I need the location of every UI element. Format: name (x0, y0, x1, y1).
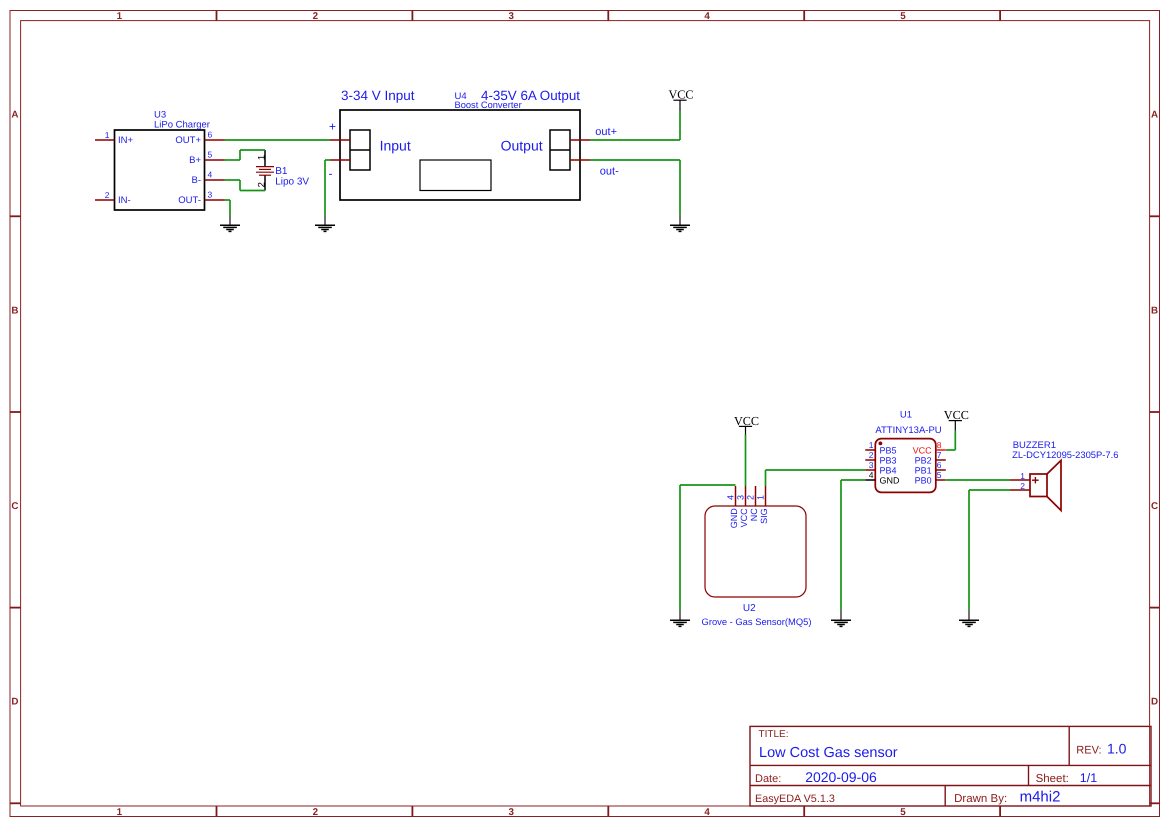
svg-text:U2: U2 (743, 603, 756, 614)
svg-text:1: 1 (1020, 471, 1025, 481)
svg-text:U1: U1 (900, 410, 912, 421)
svg-text:VCC: VCC (944, 408, 969, 422)
svg-text:PB5: PB5 (880, 445, 897, 455)
svg-text:B+: B+ (189, 155, 201, 166)
svg-text:3: 3 (869, 460, 874, 470)
svg-text:REV:: REV: (1076, 745, 1101, 757)
svg-text:OUT+: OUT+ (175, 135, 201, 146)
svg-text:2: 2 (256, 182, 267, 187)
svg-text:1: 1 (756, 495, 766, 500)
svg-text:Drawn By:: Drawn By: (954, 793, 1007, 805)
svg-text:VCC: VCC (668, 88, 693, 102)
svg-text:3: 3 (736, 495, 746, 500)
svg-text:IN+: IN+ (118, 135, 134, 146)
svg-text:GND: GND (880, 475, 901, 485)
svg-text:ATTINY13A-PU: ATTINY13A-PU (875, 425, 941, 436)
svg-text:2: 2 (1020, 481, 1025, 491)
svg-text:PB4: PB4 (880, 465, 897, 475)
svg-text:2: 2 (313, 807, 319, 818)
svg-text:4: 4 (208, 170, 213, 180)
svg-text:5: 5 (208, 150, 213, 160)
svg-text:1: 1 (105, 130, 110, 140)
svg-text:VCC: VCC (734, 414, 759, 428)
svg-text:PB1: PB1 (915, 465, 932, 475)
svg-text:ZL-DCY12095-2305P-7.6: ZL-DCY12095-2305P-7.6 (1012, 449, 1118, 460)
svg-text:VCC: VCC (739, 508, 749, 528)
svg-text:B-: B- (192, 175, 202, 186)
svg-text:PB3: PB3 (880, 455, 897, 465)
svg-text:3: 3 (208, 190, 213, 200)
svg-text:1.0: 1.0 (1107, 741, 1127, 757)
svg-text:-: - (329, 167, 333, 181)
svg-text:A: A (1151, 110, 1158, 121)
svg-text:4: 4 (704, 807, 710, 818)
svg-text:Sheet:: Sheet: (1036, 773, 1069, 785)
svg-text:1/1: 1/1 (1080, 771, 1097, 785)
svg-text:8: 8 (937, 440, 942, 450)
svg-text:2020-09-06: 2020-09-06 (805, 769, 877, 785)
svg-text:B1: B1 (275, 166, 288, 177)
svg-text:A: A (11, 110, 18, 121)
svg-text:6: 6 (208, 130, 213, 140)
svg-text:3: 3 (508, 807, 514, 818)
svg-text:+: + (329, 120, 336, 134)
svg-text:2: 2 (746, 495, 756, 500)
svg-text:Lipo 3V: Lipo 3V (275, 177, 309, 188)
svg-text:PB2: PB2 (915, 455, 932, 465)
svg-text:3: 3 (508, 11, 514, 22)
svg-text:GND: GND (729, 508, 739, 529)
svg-text:out-: out- (600, 165, 619, 177)
svg-text:5: 5 (900, 11, 906, 22)
svg-text:out+: out+ (595, 126, 617, 138)
svg-text:4-35V 6A Output: 4-35V 6A Output (481, 88, 580, 103)
svg-text:5: 5 (937, 470, 942, 480)
svg-text:Output: Output (501, 138, 543, 154)
svg-text:4: 4 (869, 470, 874, 480)
svg-text:Input: Input (380, 138, 411, 154)
svg-text:1: 1 (117, 807, 123, 818)
svg-text:NC: NC (749, 508, 759, 521)
svg-text:3-34 V Input: 3-34 V Input (341, 88, 415, 103)
svg-text:1: 1 (256, 155, 267, 160)
svg-text:SIG: SIG (759, 508, 769, 524)
svg-text:7: 7 (937, 450, 942, 460)
svg-text:OUT-: OUT- (178, 195, 201, 206)
svg-text:1: 1 (869, 440, 874, 450)
svg-text:IN-: IN- (118, 195, 131, 206)
svg-text:m4hi2: m4hi2 (1020, 789, 1061, 806)
svg-text:2: 2 (105, 190, 110, 200)
svg-text:1: 1 (117, 11, 123, 22)
svg-text:5: 5 (900, 807, 906, 818)
svg-text:Low Cost Gas sensor: Low Cost Gas sensor (759, 745, 898, 761)
svg-text:PB0: PB0 (915, 475, 932, 485)
svg-text:Date:: Date: (755, 773, 781, 785)
svg-text:D: D (11, 697, 18, 708)
svg-text:VCC: VCC (913, 445, 933, 455)
svg-text:B: B (1151, 305, 1158, 316)
svg-text:LiPo Charger: LiPo Charger (154, 120, 210, 131)
svg-text:Grove - Gas Sensor(MQ5): Grove - Gas Sensor(MQ5) (702, 616, 812, 627)
svg-text:C: C (11, 501, 18, 512)
svg-text:4: 4 (704, 11, 710, 22)
svg-text:C: C (1151, 501, 1158, 512)
svg-text:2: 2 (869, 450, 874, 460)
svg-text:2: 2 (313, 11, 319, 22)
svg-text:TITLE:: TITLE: (759, 729, 789, 740)
svg-text:EasyEDA V5.1.3: EasyEDA V5.1.3 (755, 793, 835, 805)
svg-text:6: 6 (937, 460, 942, 470)
svg-text:4: 4 (726, 495, 736, 500)
svg-text:D: D (1151, 697, 1158, 708)
svg-text:B: B (11, 305, 18, 316)
